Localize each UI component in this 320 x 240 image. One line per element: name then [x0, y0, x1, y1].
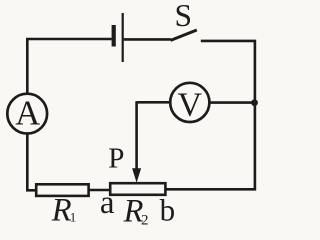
- wire: left side below ammeter down to bottom-left corner then to R1: [27, 134, 36, 191]
- wire: potentiometer wiper stem: [135, 101, 138, 169]
- svg-text:a: a: [100, 185, 115, 221]
- wire: battery positive to switch pivot: [124, 38, 171, 41]
- junction node dot on right rail: [251, 99, 258, 106]
- wire: voltmeter right lead to right rail: [210, 101, 254, 104]
- svg-text:A: A: [15, 94, 40, 132]
- wire: top-left from battery to left corner, down to ammeter: [27, 39, 112, 94]
- battery negative plate (short thick): [112, 25, 116, 47]
- voltmeter V circle: [170, 83, 209, 122]
- ammeter A circle: [7, 94, 47, 134]
- wire: bottom between R1 and R2: [88, 189, 111, 192]
- wire: voltmeter left lead to potentiometer stem corner: [137, 101, 170, 104]
- svg-text:S: S: [175, 0, 193, 33]
- resistor R1 box: [36, 184, 88, 196]
- svg-text:P: P: [108, 143, 124, 175]
- rheostat R2 box: [110, 183, 165, 195]
- svg-text:b: b: [160, 193, 176, 228]
- svg-text:2: 2: [141, 212, 149, 228]
- svg-text:V: V: [178, 87, 203, 124]
- svg-text:1: 1: [70, 209, 77, 224]
- battery positive plate (long thin): [122, 13, 124, 62]
- svg-text:R: R: [51, 193, 72, 229]
- switch S blade (open): [171, 30, 197, 40]
- wire: switch right end across top-right corner down right side to R2: [165, 41, 255, 189]
- wiper arrowhead on R2: [132, 168, 141, 182]
